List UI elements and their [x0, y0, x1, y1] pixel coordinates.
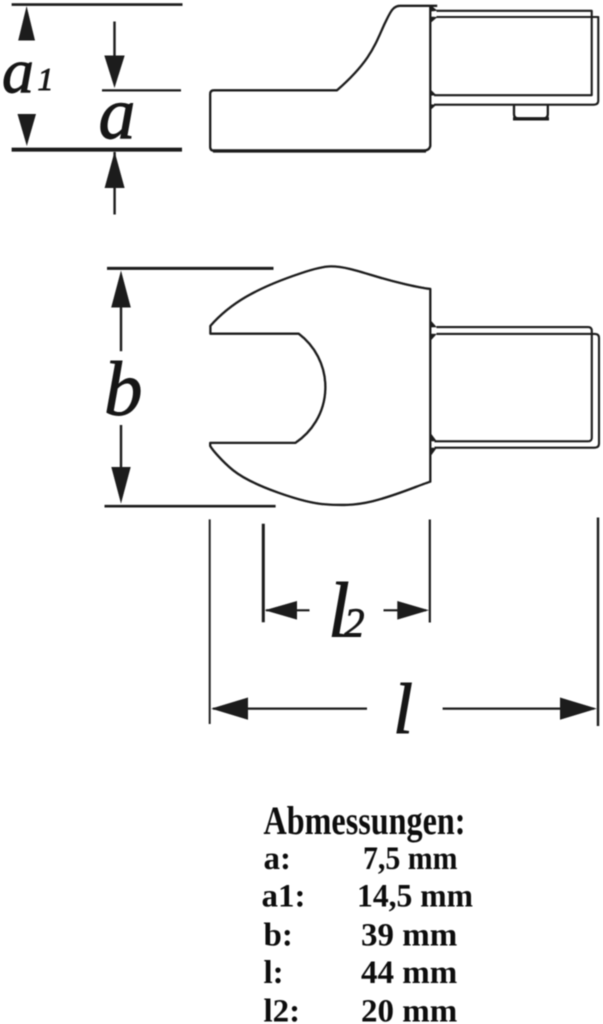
svg-text:l2:: l2:	[264, 994, 301, 1024]
svg-text:7,5 mm: 7,5 mm	[363, 841, 458, 877]
svg-text:l:: l:	[264, 955, 284, 991]
svg-text:20 mm: 20 mm	[361, 994, 457, 1024]
svg-text:b: b	[104, 346, 143, 432]
svg-text:2: 2	[344, 600, 365, 646]
svg-text:a:: a:	[264, 841, 292, 877]
svg-text:a: a	[99, 73, 136, 155]
svg-text:1: 1	[38, 61, 54, 97]
svg-text:a1:: a1:	[262, 879, 306, 915]
svg-text:a: a	[2, 36, 34, 107]
svg-text:b:: b:	[264, 918, 293, 954]
svg-text:l: l	[393, 669, 413, 749]
svg-text:44 mm: 44 mm	[361, 955, 457, 991]
svg-text:Abmessungen:: Abmessungen:	[264, 798, 466, 843]
svg-text:14,5 mm: 14,5 mm	[357, 879, 473, 915]
svg-text:39 mm: 39 mm	[361, 918, 457, 954]
